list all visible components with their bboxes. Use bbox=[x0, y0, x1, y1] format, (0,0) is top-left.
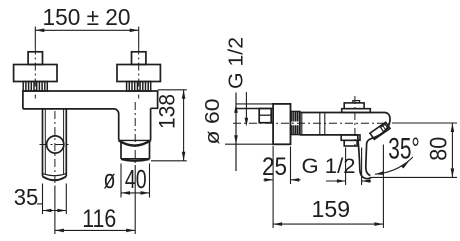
centerline left inlet bbox=[34, 47, 36, 99]
dimension G 1/2 bottom text bbox=[302, 154, 356, 178]
lever handle bbox=[370, 122, 390, 139]
ø60 extension lines bbox=[225, 104, 273, 144]
handle cylinder bbox=[43, 109, 67, 176]
dimension 35 arrows bbox=[43, 209, 67, 213]
G 1/2 vertical label bbox=[225, 37, 248, 89]
dimension 25 extension line bbox=[290, 147, 292, 185]
svg-text:ø 60: ø 60 bbox=[202, 99, 224, 145]
ø60 label bbox=[202, 99, 224, 145]
svg-text:G 1/2: G 1/2 bbox=[225, 37, 248, 89]
spout tube bbox=[121, 140, 150, 159]
handle bottom seam arc bbox=[43, 174, 67, 176]
dimension G 1/2 bottom extension lines bbox=[326, 148, 371, 186]
left knurled ring bbox=[23, 82, 47, 92]
sleeve top line bbox=[236, 108, 273, 110]
diverter flange bbox=[342, 109, 371, 113]
dimension 138 arrows bbox=[182, 90, 186, 161]
handle centerline bbox=[54, 111, 56, 186]
svg-text:138: 138 bbox=[155, 94, 180, 129]
spout bottom rim arc bbox=[121, 159, 150, 161]
dimension G 1/2 bottom arrows bbox=[337, 179, 370, 183]
svg-text:159: 159 bbox=[312, 196, 351, 222]
35 degree arc arrows bbox=[375, 161, 409, 175]
G 1/2 leader line bbox=[245, 92, 247, 120]
35 degree text bbox=[388, 133, 420, 166]
dimension 25 lines bbox=[264, 179, 301, 181]
handle hole horizontal centerline bbox=[40, 144, 71, 146]
spout centerline bbox=[134, 102, 136, 165]
dimension 116 arrows bbox=[55, 229, 135, 233]
svg-text:80: 80 bbox=[425, 137, 452, 161]
right knurled ring bbox=[127, 82, 151, 92]
svg-text:150 ± 20: 150 ± 20 bbox=[43, 4, 131, 30]
svg-text:40: 40 bbox=[125, 166, 147, 194]
ø60 arrows bbox=[234, 104, 238, 144]
svg-text:ø: ø bbox=[104, 166, 116, 194]
G 1/2 leader arrow bbox=[245, 118, 249, 127]
diverter knob top bbox=[353, 101, 360, 103]
dimension ø40 text bbox=[104, 166, 147, 194]
right inlet stub bbox=[132, 52, 146, 65]
body bar outline bbox=[23, 91, 158, 140]
dimension ø40 arrows bbox=[121, 191, 150, 195]
dimension 116 text bbox=[82, 205, 116, 233]
left union nut bbox=[14, 65, 57, 82]
spout blade left edge bbox=[358, 135, 372, 179]
dimension 25 text bbox=[262, 153, 287, 181]
knurled wall nut bbox=[291, 111, 301, 134]
dimension 80 arrows bbox=[451, 123, 455, 177]
dimension 80 extension lines bbox=[371, 123, 458, 177]
dimension 25 arrows bbox=[264, 178, 299, 182]
dimension 150±20 arrows bbox=[35, 29, 138, 33]
inlet hex nut facets bbox=[259, 114, 271, 116]
escutcheon plate bbox=[273, 104, 290, 144]
diverter knob bbox=[344, 103, 364, 109]
dimension 116 extension lines bbox=[55, 165, 135, 234]
dimension 150±20 line bbox=[35, 27, 138, 47]
left inlet stub bbox=[28, 52, 42, 65]
dimension 138 text bbox=[155, 94, 180, 129]
handle bottom cap arc bbox=[43, 176, 67, 180]
spout seam chord bbox=[119, 139, 151, 141]
svg-text:25: 25 bbox=[262, 153, 287, 181]
svg-text:116: 116 bbox=[82, 205, 116, 233]
dimension 80 text bbox=[425, 137, 452, 161]
dimension 35 extension lines bbox=[37, 184, 67, 215]
handle hole circle bbox=[47, 136, 64, 153]
inlet hex nut bbox=[259, 109, 271, 123]
dimension 159 extension lines bbox=[273, 145, 383, 229]
dimension 159 text bbox=[312, 196, 351, 222]
side body outline bbox=[300, 113, 390, 176]
dimension ø40 extension lines bbox=[121, 164, 150, 198]
spout seam arc bbox=[119, 140, 151, 145]
shower outlet upper bbox=[341, 135, 360, 140]
side body seam lines bbox=[302, 113, 325, 135]
dimension 35 text bbox=[14, 184, 39, 210]
dimension 150±20 text bbox=[43, 4, 131, 30]
svg-text:35°: 35° bbox=[388, 133, 420, 166]
dimension 159 arrows bbox=[273, 222, 383, 226]
svg-text:35: 35 bbox=[14, 184, 39, 210]
handle inner shading lines bbox=[45, 109, 63, 174]
svg-text:G 1/2: G 1/2 bbox=[302, 154, 356, 178]
dimension 138 extension lines bbox=[151, 90, 187, 161]
wall line bbox=[235, 93, 237, 172]
cartridge vertical centerline bbox=[354, 96, 356, 146]
side body horizontal centerline bbox=[233, 122, 392, 124]
shower outlet lower bbox=[344, 140, 357, 146]
35 degree angle arc bbox=[375, 157, 413, 174]
right union nut bbox=[117, 65, 160, 82]
centerline right inlet bbox=[138, 47, 140, 99]
